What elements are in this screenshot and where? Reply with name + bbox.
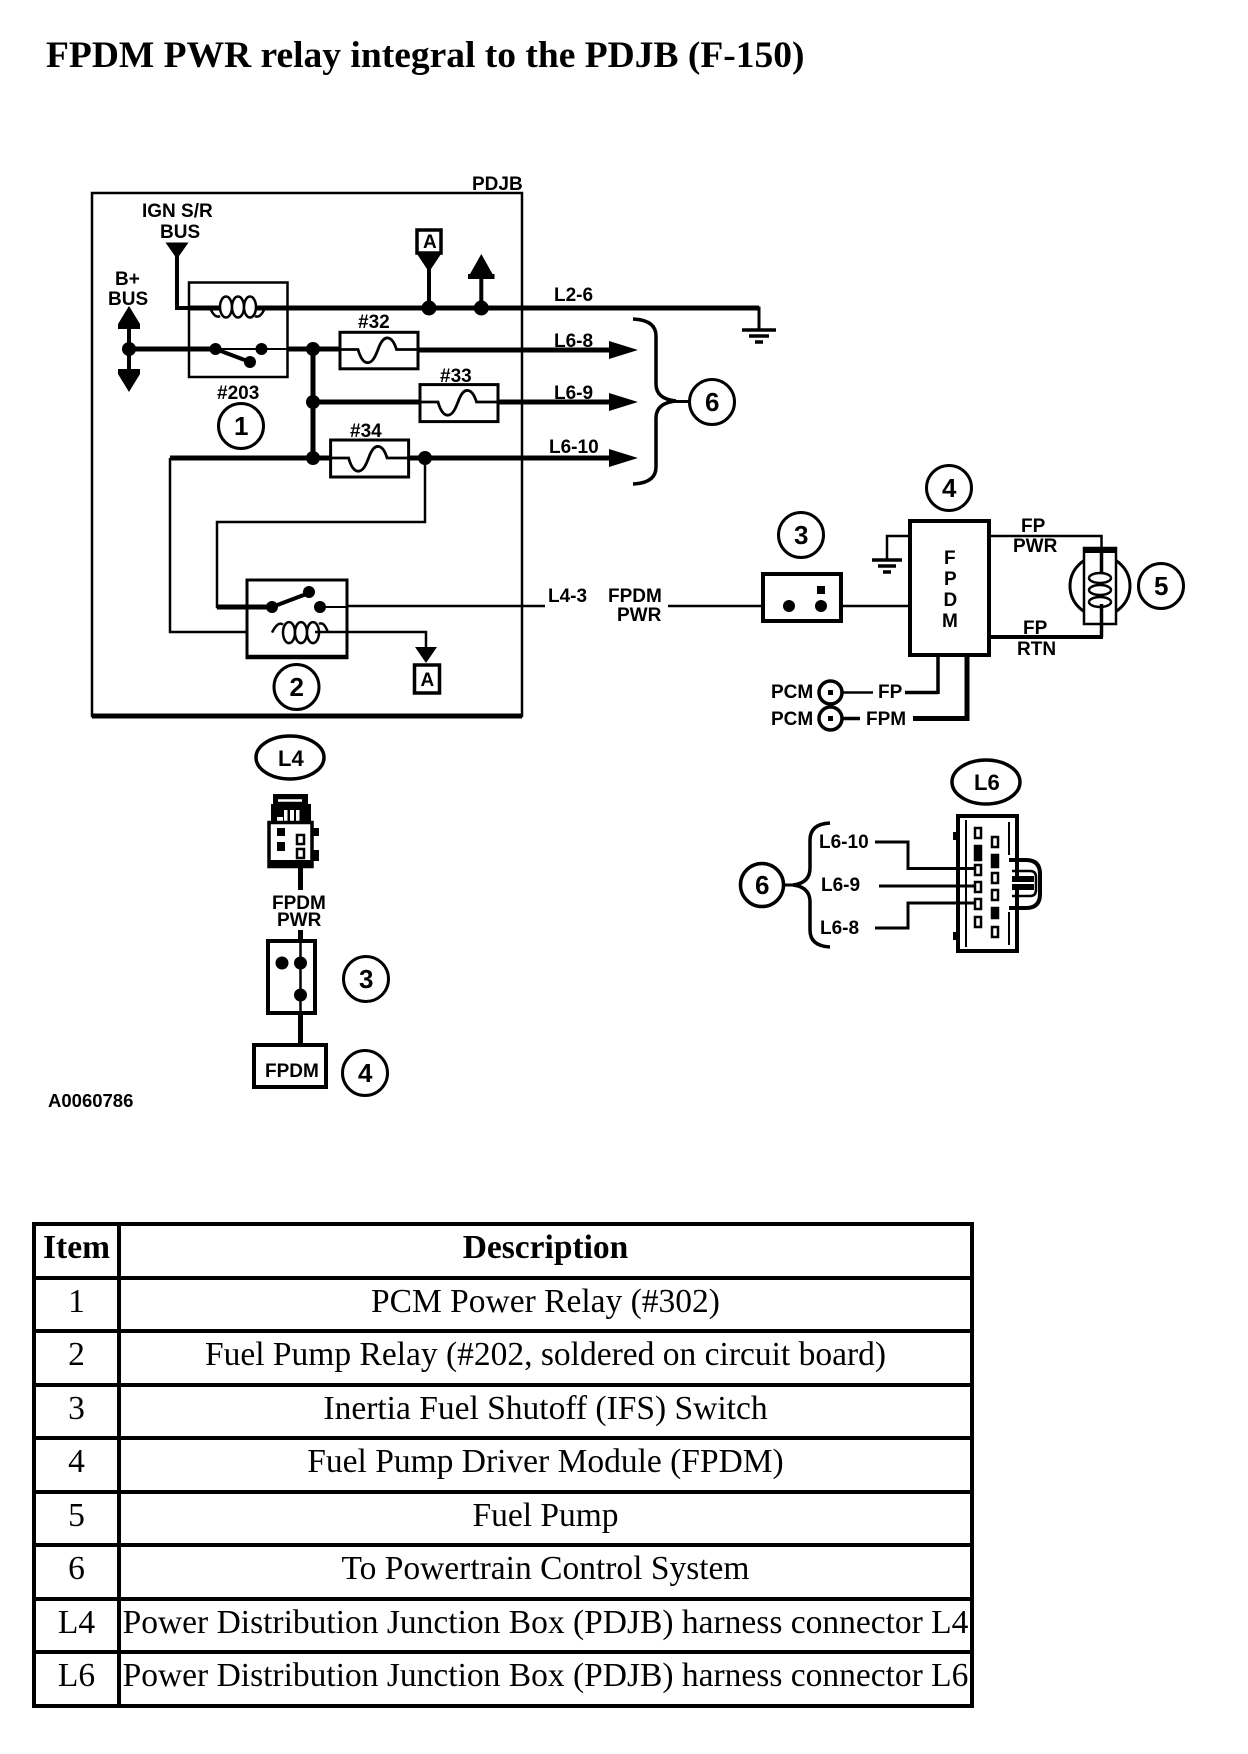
connector L6 pins left column — [975, 828, 981, 927]
svg-text:L6-10: L6-10 — [549, 437, 599, 458]
svg-text:4: 4 — [942, 473, 957, 503]
label L4-3 — [548, 586, 587, 607]
wire IFS to FPDM (bottom) — [298, 1013, 303, 1045]
svg-text:PDJB: PDJB — [472, 174, 523, 195]
svg-text:B+: B+ — [115, 269, 140, 290]
svg-text:L4: L4 — [278, 746, 304, 771]
junction B+ bus — [122, 342, 136, 356]
junction arrow on coil line — [474, 301, 489, 316]
connector L4 symbol — [269, 794, 319, 867]
svg-text:A0060786: A0060786 — [48, 1090, 133, 1111]
svg-text:4: 4 — [358, 1058, 373, 1088]
relay K1 coil — [210, 297, 265, 318]
wire IFS to FPDM — [841, 605, 910, 608]
FPDM module box (bottom) — [254, 1045, 326, 1087]
svg-text:L6-9: L6-9 — [554, 383, 593, 404]
svg-text:#203: #203 — [217, 383, 259, 404]
wire FP RTN — [989, 635, 1103, 639]
junction A on coil line — [422, 301, 437, 316]
wire L4 connector down — [298, 867, 303, 890]
wire label to IFS connector — [298, 930, 303, 943]
callout circle 1 — [219, 404, 264, 449]
svg-text:6: 6 — [755, 870, 769, 900]
callout circle 2 — [274, 665, 319, 710]
svg-text:RTN: RTN — [1017, 639, 1056, 660]
svg-text:PWR: PWR — [617, 605, 662, 626]
node IGN S/R BUS — [142, 201, 213, 259]
svg-text:3: 3 — [359, 964, 373, 994]
wire brace to circle 6 — [674, 400, 689, 403]
junction after fuse #34 — [418, 451, 432, 465]
label L2-6 — [554, 285, 593, 306]
wire relay K2 coil to A flag — [315, 632, 426, 648]
svg-text:P: P — [944, 569, 957, 590]
svg-text:FP: FP — [1021, 516, 1046, 537]
svg-text:IGN S/R: IGN S/R — [142, 201, 213, 222]
svg-text:6: 6 — [705, 387, 719, 417]
svg-text:BUS: BUS — [160, 222, 200, 243]
svg-text:L6-10: L6-10 — [819, 832, 869, 853]
net label FP RTN — [1017, 618, 1056, 660]
label L6-8 — [554, 331, 593, 352]
wire to fuse #33 — [313, 400, 420, 405]
wire L6-8 to connector — [875, 903, 975, 928]
wire L6-8 — [418, 341, 638, 359]
fuse #34 — [331, 421, 409, 477]
svg-text:M: M — [942, 611, 958, 632]
svg-text:1: 1 — [234, 411, 248, 441]
wire fuse bus vertical — [311, 349, 316, 458]
svg-text:L6-8: L6-8 — [820, 918, 859, 939]
svg-text:PWR: PWR — [277, 910, 322, 931]
FPDM module U1 — [910, 521, 989, 655]
callout circle 3 (bottom) — [344, 957, 389, 1002]
wire L6-10 to connector — [875, 842, 975, 869]
node B+ BUS — [108, 269, 148, 392]
svg-text:L6-9: L6-9 — [821, 875, 860, 896]
brace to callout 6 — [633, 319, 676, 484]
pin PCM FP — [771, 655, 938, 704]
callout circle 4 — [927, 466, 972, 511]
label L6-9 — [554, 383, 593, 404]
svg-text:#32: #32 — [358, 312, 390, 333]
connector L6 body — [953, 816, 1017, 951]
wire from fuse #34 down to relay K2 switch — [217, 458, 425, 607]
relay K2 coil — [272, 622, 328, 643]
svg-text:A: A — [423, 232, 437, 253]
callout circle 6 — [690, 380, 735, 425]
svg-text:2: 2 — [290, 672, 304, 702]
callout circle 3 — [779, 513, 824, 558]
svg-text:FPDM: FPDM — [608, 586, 662, 607]
IFS switch connector S1 (bottom) — [268, 941, 315, 1013]
relay K2 switch — [217, 586, 347, 613]
svg-text:5: 5 — [1154, 571, 1168, 601]
wire circle 6 to brace — [784, 884, 794, 887]
svg-text:FP: FP — [878, 682, 903, 703]
label L6-9 (bottom) — [821, 875, 860, 896]
callout circle 4 (bottom) — [343, 1051, 388, 1096]
wire L6-9 — [498, 393, 638, 411]
PDJB box — [92, 193, 522, 716]
net label FPDM PWR — [608, 586, 662, 626]
connector L6 latch — [1009, 860, 1040, 908]
wire L2-6 to ground — [757, 308, 760, 330]
net label FP PWR — [1013, 516, 1058, 557]
callout circle 6 (bottom) — [741, 864, 784, 907]
label L6-8 (bottom) — [820, 918, 859, 939]
pin PCM FPM — [771, 655, 967, 730]
wire L6-9 to connector — [879, 885, 975, 888]
connector label L6 — [952, 760, 1020, 804]
label L6-10 — [549, 437, 599, 458]
svg-text:D: D — [944, 590, 958, 611]
A flag bottom — [415, 647, 440, 693]
net label FPDM PWR (bottom) — [272, 893, 326, 931]
wire L4-3 FPDM PWR — [347, 605, 763, 608]
callout circle 5 — [1139, 564, 1184, 609]
svg-text:F: F — [944, 548, 956, 569]
arrow up symbol — [468, 254, 495, 308]
svg-text:L4-3: L4-3 — [548, 586, 587, 607]
wire IGN to relay coil — [177, 256, 189, 308]
svg-text:L2-6: L2-6 — [554, 285, 593, 306]
wire from L6-10 line down to relay K2 coil — [170, 458, 247, 632]
svg-text:PWR: PWR — [1013, 536, 1058, 557]
label L6-10 (bottom) — [819, 832, 869, 853]
svg-text:A: A — [421, 670, 435, 691]
junction fuse bus mid — [306, 395, 320, 409]
relay K1 coil wire — [189, 306, 759, 311]
connector L6 pins right column — [992, 837, 998, 937]
label #203 — [217, 383, 259, 404]
fuse #32 — [340, 312, 418, 369]
brace L6 group — [793, 823, 830, 947]
svg-text:FPM: FPM — [866, 709, 906, 730]
svg-text:PCM: PCM — [771, 682, 813, 703]
junction fuse bus top — [306, 342, 320, 356]
fuel pump M1 — [1070, 548, 1130, 637]
svg-text:L6: L6 — [974, 770, 1000, 795]
ground G1 — [742, 330, 776, 342]
ground G2 — [872, 560, 902, 572]
svg-text:3: 3 — [794, 520, 808, 550]
junction fuse bus bottom — [306, 451, 320, 465]
A flag top — [417, 230, 441, 308]
wire FPDM to ground — [887, 536, 910, 559]
relay K1 box — [189, 283, 288, 378]
svg-text:BUS: BUS — [108, 289, 148, 310]
relay K1 switch wire — [129, 347, 340, 352]
PDJB label — [472, 174, 523, 195]
svg-text:FPDM: FPDM — [265, 1061, 319, 1082]
wire FP PWR to pump — [989, 536, 1102, 570]
figure number A0060786 — [48, 1090, 133, 1111]
IFS switch connector S1 — [763, 574, 841, 621]
wire to fuse #34 — [170, 456, 331, 461]
wire L6-10 — [409, 449, 638, 467]
svg-text:PCM: PCM — [771, 709, 813, 730]
relay K1 contacts and blade — [210, 343, 268, 368]
svg-text:L6-8: L6-8 — [554, 331, 593, 352]
fuse #33 — [420, 366, 498, 422]
connector label L4 — [256, 736, 324, 779]
relay K2 box — [246, 580, 349, 657]
